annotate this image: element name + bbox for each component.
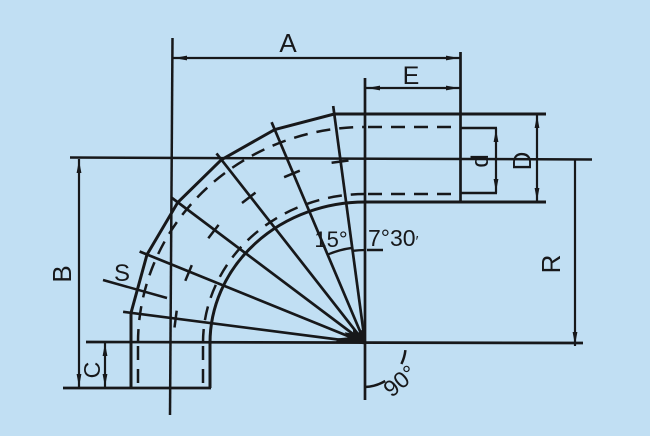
leader under 7deg30 text bbox=[367, 249, 383, 252]
dimension line C bbox=[104, 342, 106, 388]
mitre joint radial at 37.5 deg bbox=[217, 153, 366, 343]
mitre joint radial at 7.5 deg bbox=[333, 106, 365, 343]
mitre joint radial at 52.5 deg bbox=[171, 198, 365, 344]
svg-text:C: C bbox=[79, 362, 105, 379]
dimension line R bbox=[574, 160, 576, 346]
lower pipe end face + B extension bbox=[63, 387, 211, 390]
svg-text:B: B bbox=[47, 265, 77, 282]
centre tick on 82.5 deg joint bbox=[175, 311, 177, 328]
bore dashed line lower pipe left bbox=[137, 346, 140, 386]
mitre joint radial at 67.5 deg bbox=[140, 252, 365, 344]
mitre joint radial at 22.5 deg bbox=[272, 122, 365, 343]
dimension line B bbox=[78, 159, 80, 388]
arc 7deg30 bbox=[353, 249, 365, 252]
dimension line E bbox=[366, 87, 460, 89]
horizontal joint line C / 90-deg radial / R reference bbox=[86, 342, 583, 343]
svg-text:E: E bbox=[403, 62, 420, 90]
arc 90deg part2 bbox=[401, 350, 405, 364]
leader line S bbox=[103, 280, 167, 298]
svg-text:R: R bbox=[536, 255, 566, 274]
dimension line d bbox=[495, 128, 497, 193]
centre tick on 7.5 deg joint bbox=[332, 161, 349, 163]
vertical centreline of lower pipe / A extension bbox=[170, 38, 173, 415]
outer wall of elbow (mitre facets) bbox=[131, 114, 365, 343]
horizontal centreline of upper pipe / B extension bbox=[70, 158, 592, 160]
bore dashed line lower pipe right bbox=[202, 346, 205, 386]
svg-text:D: D bbox=[507, 152, 537, 171]
dimension line D bbox=[536, 114, 538, 202]
svg-text:7°30′: 7°30′ bbox=[368, 225, 419, 251]
vertical joint line E / 0-deg radial bbox=[364, 78, 367, 400]
svg-text:S: S bbox=[114, 260, 130, 287]
centre tick on 67.5 deg joint bbox=[185, 265, 192, 281]
bore dashed line upper pipe bottom bbox=[368, 193, 458, 196]
upper pipe bottom wall + D extension bbox=[365, 201, 546, 204]
svg-text:15°: 15° bbox=[314, 227, 347, 252]
pivot convergence blob bbox=[335, 328, 365, 343]
upper pipe top wall + D extension bbox=[334, 113, 546, 116]
d extension tick bottom bbox=[461, 192, 497, 195]
svg-text:A: A bbox=[279, 28, 297, 58]
svg-text:d: d bbox=[467, 154, 494, 167]
upper pipe end face bbox=[459, 52, 462, 202]
dimension line A bbox=[173, 57, 460, 59]
centre tick on 37.5 deg joint bbox=[242, 193, 256, 203]
bore dashed outer curve bbox=[138, 127, 365, 343]
bore dashed line upper pipe top bbox=[368, 126, 458, 129]
centre tick on 52.5 deg joint bbox=[208, 225, 218, 238]
d extension tick top bbox=[461, 127, 497, 130]
centre tick on 22.5 deg joint bbox=[284, 171, 300, 178]
lower pipe right wall bbox=[209, 343, 212, 388]
mitre joint radial at 82.5 deg bbox=[123, 312, 365, 343]
lower pipe left wall bbox=[130, 313, 133, 388]
inner wall of elbow bbox=[210, 202, 365, 343]
arc 90deg part1 bbox=[365, 381, 385, 387]
arc 15deg bbox=[327, 248, 353, 255]
bore dashed inner curve bbox=[203, 194, 365, 343]
